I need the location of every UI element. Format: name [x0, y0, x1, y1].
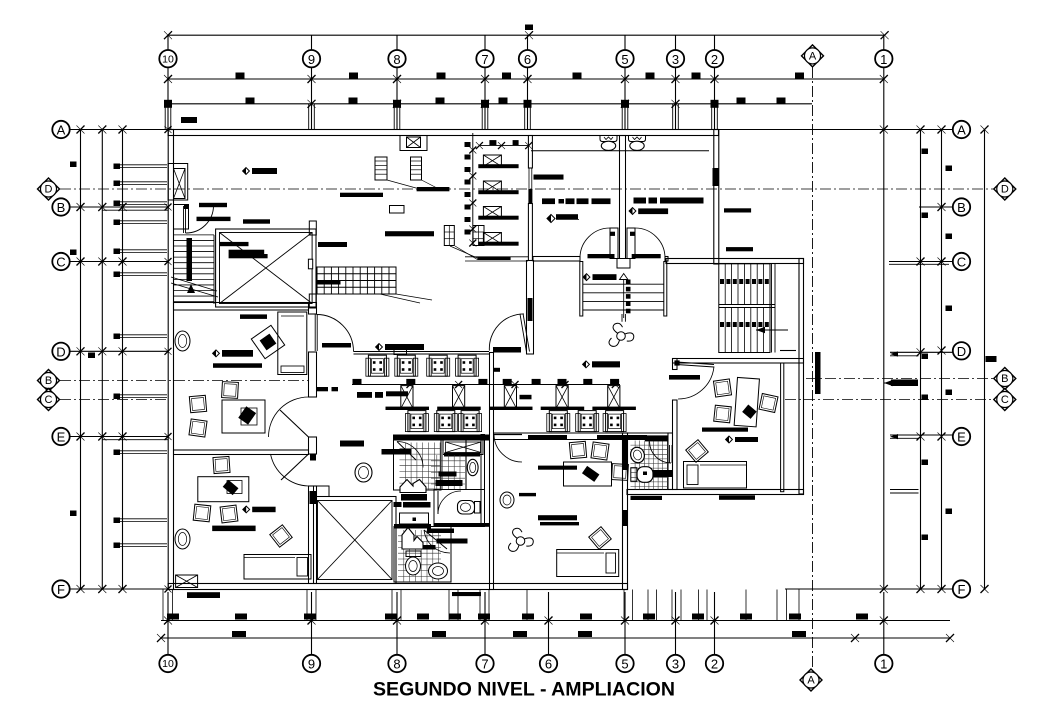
svg-text:7: 7: [481, 52, 488, 67]
bottom dim line1 text bars: [167, 614, 868, 620]
toilet mid room: [600, 136, 617, 151]
bedroom bed: [557, 550, 619, 577]
room2 door: [271, 454, 309, 486]
bath3 bar c: [420, 545, 436, 550]
svg-text:3: 3: [672, 657, 679, 672]
checker leader: [380, 294, 432, 303]
svg-text:2: 2: [711, 52, 718, 67]
title text: [373, 680, 675, 701]
svg-text:A: A: [57, 123, 66, 138]
right dim tick squares b: [946, 166, 953, 515]
right dim line 1: [883, 130, 885, 590]
room2 desk: [198, 477, 249, 502]
bath2 bar 1: [439, 472, 457, 477]
right dim small bar: [986, 356, 997, 362]
left row line E: [53, 433, 172, 441]
svg-text:6: 6: [545, 657, 552, 672]
grid bubble 2 top: [706, 50, 723, 67]
bar room2 d: [243, 506, 276, 513]
stair bumpout right wall: [799, 259, 804, 495]
br bath wc: [631, 467, 653, 483]
fan bedroom: [509, 528, 534, 551]
svg-text:D: D: [1001, 184, 1009, 196]
waiting ledge: [354, 347, 490, 355]
central stair squares: [626, 280, 631, 314]
grid bubble 5 top: [616, 50, 633, 67]
bath1 walls: [394, 440, 442, 490]
deskroom label below: [719, 495, 755, 500]
grid bubble 7 bottom: [476, 655, 493, 672]
deskroom bed: [684, 462, 747, 489]
bedroom top wall black 1: [528, 435, 567, 440]
br bath black bar: [653, 470, 674, 477]
svg-text:7: 7: [481, 657, 488, 672]
svg-text:5: 5: [621, 657, 628, 672]
bar elev1: [220, 242, 249, 246]
left row bubble F: [52, 580, 69, 597]
left row bubble A: [52, 121, 69, 138]
left dim stub lines: [119, 165, 167, 547]
waiting armchair row3 right: [547, 411, 626, 432]
room2 chair t1: [213, 456, 230, 473]
right dim arrow: [884, 380, 905, 386]
room1 top wall: [174, 303, 309, 311]
deskroom chair1: [713, 379, 731, 397]
corridor wall seg2: [309, 352, 317, 397]
hall wall x528 window: [529, 168, 532, 190]
grid bubble 8 bottom: [388, 655, 405, 672]
br bath top black: [645, 435, 668, 441]
room2 sink: [175, 529, 190, 549]
bar: [197, 217, 231, 221]
bedroom area top wall: [494, 433, 668, 440]
left diamond C: [38, 389, 60, 411]
bath2 bar 2: [436, 480, 463, 486]
bedroom chair t1: [569, 441, 586, 458]
waiting bars left: [317, 387, 408, 398]
ledge door arc: [489, 314, 524, 351]
top dimension line 1: [164, 31, 889, 39]
svg-text:F: F: [958, 582, 966, 597]
hall cabinet 1: [375, 157, 416, 188]
room divider wall: [174, 450, 309, 455]
grid line 2 top: [712, 35, 718, 129]
shelf grid box 2: [473, 226, 484, 246]
top wall niche box: [400, 136, 427, 151]
toilet room walls: [434, 490, 485, 527]
left row line A: [53, 126, 172, 134]
grid bubble 9 top: [303, 50, 320, 67]
svg-text:C: C: [45, 394, 53, 406]
right wall projection pair: [890, 490, 919, 494]
bar hall d: [376, 344, 424, 351]
bar: [649, 198, 658, 204]
right staircase: [719, 264, 775, 353]
svg-text:A: A: [809, 51, 817, 63]
svg-text:E: E: [57, 430, 66, 445]
grid bubble 1 top: [875, 50, 892, 67]
grid diamond A bottom: [800, 669, 822, 691]
bath3 tiles: [398, 530, 441, 582]
bottom dim line2 text bars: [232, 631, 806, 637]
corridor black sq: [493, 368, 500, 372]
svg-text:SEGUNDO NIVEL - AMPLIACION: SEGUNDO NIVEL - AMPLIACION: [373, 680, 675, 701]
bedroom stool: [500, 492, 514, 508]
grid bubble 8 top: [388, 50, 405, 67]
bedroom desk: [564, 462, 612, 486]
bar deskroom d: [726, 436, 758, 443]
desk room left wall up: [673, 359, 678, 370]
br bath right wall: [668, 433, 673, 490]
central stair arrow: [620, 274, 628, 322]
xroom inner: [318, 501, 393, 580]
waiting xtable underlines: [386, 407, 636, 410]
top dim line1 text bar: [525, 25, 533, 31]
bath block top black: [393, 435, 490, 441]
svg-text:C: C: [957, 255, 966, 270]
room2 bed: [244, 555, 311, 580]
right dim thick bar: [891, 380, 918, 387]
right row line D: [780, 347, 953, 357]
bath1 bar below M: [401, 494, 427, 501]
top dim line3 grid squares: [164, 100, 719, 108]
br bath label bar: [631, 496, 663, 500]
bath2 sink: [467, 459, 478, 475]
outer wall bottom: [168, 584, 627, 590]
deskroom desk: [734, 377, 759, 426]
bedroom tilted chair: [589, 527, 612, 550]
room1 tilted table: [251, 325, 284, 358]
bar hall right d: [583, 361, 620, 368]
waiting xtables: [401, 386, 620, 409]
left dim line 3: [122, 130, 124, 590]
double door right arc: [635, 228, 665, 258]
hall wall x528 lower: [528, 204, 532, 261]
window black right wall: [713, 168, 719, 186]
grid line 2 bottom: [714, 592, 716, 655]
svg-text:B: B: [1001, 373, 1008, 385]
grid line 9 bottom: [311, 592, 313, 655]
waiting armchair row3 left: [405, 411, 481, 432]
bath divider wall x622: [620, 136, 626, 261]
svg-text:5: 5: [621, 52, 628, 67]
right dim line 4: [981, 126, 989, 594]
svg-text:1: 1: [880, 657, 887, 672]
desk room left wall low: [673, 400, 678, 490]
room2 tilted chair: [270, 525, 292, 547]
hall south wall east seg: [665, 257, 668, 262]
xroom outer: [314, 497, 397, 584]
bedroom top wall black 2: [597, 435, 647, 440]
toilet room wc: [458, 501, 481, 515]
bedroom chair r: [612, 464, 629, 481]
elevator notch mid: [308, 259, 312, 269]
left closet: [174, 205, 189, 230]
bedroom right wall: [623, 433, 628, 590]
left row bubble E: [52, 428, 69, 445]
bedroom door: [494, 435, 522, 463]
room2 chair l1: [193, 504, 211, 522]
svg-text:F: F: [57, 582, 65, 597]
room1 bed: [278, 312, 307, 375]
bar elev4: [318, 242, 347, 247]
left dim line 1: [80, 130, 82, 590]
svg-text:1: 1: [880, 52, 887, 67]
waiting dim squares: [353, 379, 620, 384]
left row line B: [53, 203, 172, 211]
right stair arrow: [756, 327, 788, 333]
grid bubble 1 bottom: [875, 655, 892, 672]
bumpout bottom wall: [627, 490, 804, 495]
bar top mid: [385, 231, 434, 236]
toilet room bottom black: [434, 523, 490, 527]
left row line D: [53, 347, 172, 355]
stair shaft west wall: [527, 261, 534, 355]
bath3 top black: [394, 524, 431, 529]
closet door: [184, 205, 214, 233]
svg-text:3: 3: [672, 52, 679, 67]
bar bedroom4: [519, 493, 536, 496]
hall counter lines: [465, 257, 528, 261]
row C dash-dot left: [60, 399, 168, 401]
left row bubble B: [52, 198, 69, 215]
svg-text:C: C: [56, 255, 65, 270]
grid bubble 6 bottom: [540, 655, 557, 672]
left staircase rail: [187, 238, 193, 281]
corridor wall seg4: [309, 454, 317, 584]
hall dim line: [476, 140, 532, 149]
grid bubble 5 bottom: [616, 655, 633, 672]
corridor wall seg1: [309, 303, 317, 315]
bath1 tiles: [400, 443, 442, 491]
hall wall x528 upper: [528, 136, 532, 169]
room2 corner Xbox: [176, 575, 198, 588]
bar: [634, 198, 647, 204]
shelf X-boxes: [478, 155, 518, 246]
room1 door: [269, 397, 309, 437]
bar bedroom3: [540, 522, 579, 525]
shelf leaders: [450, 246, 511, 260]
grid line 10 top: [165, 35, 171, 129]
waiting armchair row1: [366, 355, 479, 376]
right row line F: [785, 585, 953, 593]
bar: [660, 198, 704, 204]
svg-text:6: 6: [524, 52, 531, 67]
right row bubble C: [953, 253, 970, 270]
shower pan: [443, 440, 483, 455]
deskroom chair3: [759, 394, 778, 413]
room1 chair 1: [189, 395, 206, 412]
bar stair: [583, 274, 616, 281]
bar wait: [340, 441, 364, 447]
left row bubble C: [52, 253, 69, 270]
toilet right room: [629, 136, 646, 151]
bar right d: [629, 208, 668, 215]
corridor wall seg3: [309, 437, 317, 454]
right stair squares r2: [720, 322, 769, 327]
right row bubble F: [953, 580, 970, 597]
central staircase: [580, 262, 667, 317]
bar top c: [340, 193, 383, 197]
bedroom wall black upper: [623, 440, 628, 470]
elevator pilaster bottom: [309, 294, 316, 308]
bath1 bar left: [394, 502, 402, 507]
svg-text:C: C: [1001, 394, 1009, 406]
bar: [632, 254, 661, 258]
bar bump1: [724, 208, 751, 212]
elevator X: [220, 233, 313, 304]
grid line 1 top: [883, 35, 885, 129]
bath1 bar mid: [403, 502, 431, 508]
corridor door black bar: [322, 343, 351, 348]
right stair squares r1: [720, 279, 769, 284]
bath3 walls: [394, 527, 451, 583]
grid bubble 3 bottom: [667, 655, 684, 672]
shelf tick squares: [465, 142, 471, 235]
svg-text:D: D: [45, 184, 53, 196]
bedroom left wall: [490, 353, 494, 590]
grid diamond A top: [802, 45, 824, 67]
right row line B: [919, 203, 953, 211]
right dash C: [785, 399, 993, 401]
bar bump2: [726, 247, 753, 251]
svg-text:A: A: [957, 123, 966, 138]
left staircase treads: [174, 235, 215, 304]
bar room1: [240, 314, 267, 319]
bath1 door: [397, 442, 423, 468]
top dimension line 2: [164, 75, 888, 83]
elevator pilaster top: [309, 221, 316, 235]
deskroom chair2: [714, 405, 732, 423]
shelf grid box 1: [444, 226, 454, 246]
grid line 10 bottom: [167, 592, 169, 655]
svg-text:A: A: [807, 675, 815, 687]
bath2 tiles: [431, 455, 465, 490]
bath3 sink: [429, 563, 448, 579]
grid line 8 top: [394, 35, 400, 129]
window black bedroom wall: [623, 510, 628, 526]
grid bubble 6 top: [519, 50, 536, 67]
right diamond D: [994, 178, 1016, 200]
svg-text:B: B: [957, 200, 966, 215]
bath2 inner wall: [465, 440, 467, 490]
left row bubble D: [52, 343, 69, 360]
svg-text:D: D: [56, 344, 65, 359]
double door left arc: [580, 228, 610, 258]
grid line 3 top: [673, 35, 679, 129]
grid bubble 7 top: [476, 50, 493, 67]
elevator outer: [216, 229, 316, 307]
left wall duct X: [174, 169, 186, 199]
grid line 5 bottom: [624, 592, 626, 655]
bumpout top wall: [666, 259, 804, 264]
grid line 5 top: [622, 35, 628, 129]
right dim line 3: [941, 130, 943, 590]
left staircase arrow: [187, 284, 195, 293]
bar mid d: [547, 214, 579, 222]
desk room east wall: [781, 363, 784, 492]
bath3 wc: [406, 551, 422, 575]
left diamond B: [38, 370, 60, 392]
checker ramp: [317, 267, 396, 294]
right row bubble A: [953, 121, 970, 138]
bar bottomleft: [187, 592, 220, 598]
corridor basin: [355, 463, 372, 482]
desk room top wall: [673, 359, 804, 364]
br bath sink: [629, 445, 647, 464]
bottom jamb lines: [163, 590, 799, 621]
bar: [243, 219, 270, 223]
br bath door: [650, 442, 673, 464]
grid line 9 top: [309, 35, 315, 129]
bar bath: [382, 449, 412, 455]
right row bubble E: [953, 428, 970, 445]
outer wall top: [168, 130, 718, 136]
svg-text:10: 10: [162, 53, 174, 65]
grid line 7 bottom: [484, 592, 486, 655]
toilet room door: [438, 491, 461, 514]
desk room door: [674, 360, 714, 399]
bath3 bar a: [427, 529, 454, 534]
hall cabinet 2: [411, 157, 438, 188]
grid line 6t top: [525, 35, 531, 129]
hall wall x528 block: [528, 189, 532, 204]
bar deskroom bed: [702, 428, 748, 432]
checker ramp bar: [318, 280, 341, 285]
bottom dimension line 2: [157, 634, 954, 642]
right row line C: [889, 258, 953, 266]
right diamond C: [994, 389, 1016, 411]
grid line 3 bottom: [675, 592, 677, 655]
svg-text:D: D: [957, 344, 966, 359]
shelf dim line: [469, 133, 476, 247]
left dim line 2: [101, 130, 103, 590]
corridor big door: [315, 315, 353, 352]
door mullion: [617, 259, 630, 269]
right row bubble D: [953, 342, 970, 359]
bar elev3: [229, 254, 268, 258]
br bath tiles: [631, 441, 669, 490]
svg-text:10: 10: [162, 658, 174, 670]
bar: [588, 254, 615, 258]
right stair vertical bar: [815, 352, 821, 394]
bar: [199, 203, 227, 207]
dash row mid: [542, 198, 611, 204]
double door left leaf: [610, 228, 619, 259]
svg-text:B: B: [45, 375, 52, 387]
grid bubble 9 bottom: [303, 655, 320, 672]
svg-text:B: B: [57, 200, 66, 215]
right diamond B: [994, 368, 1016, 390]
outer wall left: [168, 130, 173, 590]
bar cab: [417, 187, 450, 191]
bar below wall: [452, 592, 481, 596]
grid line 1 bottom: [883, 592, 885, 655]
right dim tick squares a: [922, 149, 929, 541]
top dimension line 3: [165, 100, 812, 108]
svg-text:8: 8: [393, 657, 400, 672]
right row line A: [719, 126, 953, 134]
hall south wall west: [533, 257, 580, 262]
room1 desk: [222, 400, 265, 433]
row D dash-dot: [60, 188, 994, 190]
bar nw: [243, 168, 277, 175]
elevator inner: [220, 233, 313, 304]
grid bubble 2 bottom: [706, 655, 723, 672]
bar bedroom1: [538, 466, 577, 470]
deskroom tilted chair: [686, 440, 709, 463]
grid line 6b bottom: [548, 592, 550, 655]
